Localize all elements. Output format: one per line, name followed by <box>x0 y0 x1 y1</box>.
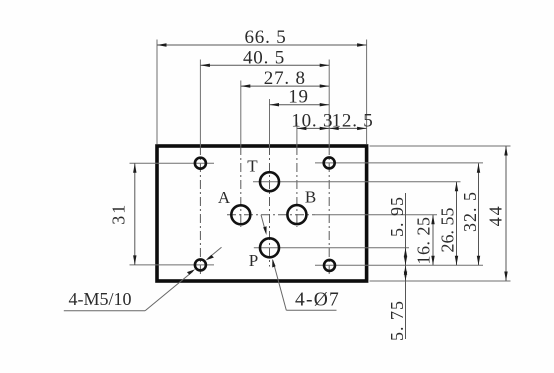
extension line A column (top) <box>240 81 242 147</box>
svg-text:44: 44 <box>486 204 506 226</box>
dimension 12.5 line <box>329 127 366 129</box>
extension line P row (right) <box>254 247 409 249</box>
svg-text:26. 55: 26. 55 <box>438 208 458 253</box>
svg-text:32. 5: 32. 5 <box>460 191 480 232</box>
port A <box>231 205 250 224</box>
dimension 5.75 arrows <box>404 265 407 275</box>
dimension 31 line <box>134 163 136 265</box>
centerline T-P vertical <box>269 146 271 267</box>
centerline B column <box>296 146 298 227</box>
extension line B column (top) <box>296 123 298 147</box>
mounting hole top-right <box>324 157 335 168</box>
centerline A column <box>240 146 242 227</box>
extension line right hole column (top) <box>328 60 330 147</box>
extension line T/P column (top) <box>269 99 271 146</box>
extension line 31 bottom <box>130 264 215 266</box>
centerline A-B horizontal <box>227 214 315 216</box>
dimension 10.3 line <box>297 127 329 129</box>
dimension 19 line <box>270 104 330 106</box>
extension line 31 top <box>130 162 215 164</box>
svg-text:T: T <box>247 156 258 175</box>
dimension 44 line <box>505 146 507 281</box>
svg-text:12. 5: 12. 5 <box>332 110 374 131</box>
extension line bottom edge (right) <box>370 280 511 282</box>
dimension 5.95 / 5.75 line <box>405 193 407 339</box>
svg-text:19: 19 <box>288 87 309 108</box>
mounting hole bottom-right <box>324 260 335 271</box>
dimension 40.5 line <box>200 64 329 66</box>
svg-text:5. 95: 5. 95 <box>387 196 407 237</box>
svg-text:66. 5: 66. 5 <box>245 27 287 48</box>
svg-text:4-M5/10: 4-M5/10 <box>69 289 132 309</box>
svg-text:5. 75: 5. 75 <box>387 300 407 341</box>
dimension 16.25 line <box>432 215 434 265</box>
svg-text:16. 25: 16. 25 <box>414 217 434 265</box>
port B <box>287 205 306 224</box>
centerline right holes vertical <box>328 146 330 277</box>
mounting hole top-left <box>195 158 206 169</box>
extension line right edge (top) <box>366 40 368 145</box>
svg-text:B: B <box>305 188 316 207</box>
extension line top edge (right) <box>370 145 511 147</box>
port P <box>260 238 279 257</box>
extension line A-B row (right) <box>315 214 437 216</box>
leader 4-diam7 upper segment <box>261 215 265 230</box>
svg-text:10. 3: 10. 3 <box>291 110 333 131</box>
extension line left edge (top) <box>156 40 158 145</box>
extension line top holes row (right) <box>315 162 483 164</box>
dimension 66.5 line <box>157 44 367 46</box>
dimension 26.55 line <box>456 182 458 266</box>
svg-text:A: A <box>218 188 231 207</box>
extension line T row (right) <box>253 181 461 183</box>
plate body outline <box>157 146 367 281</box>
svg-text:40. 5: 40. 5 <box>243 47 285 68</box>
svg-text:31: 31 <box>109 203 129 225</box>
dimension 27.8 line <box>241 85 329 87</box>
svg-text:4-Ø7: 4-Ø7 <box>295 290 340 311</box>
svg-text:P: P <box>249 251 258 270</box>
extension line left hole column (top) <box>199 60 201 147</box>
dimension 32.5 line <box>478 163 480 265</box>
mounting hole bottom-left <box>195 259 206 270</box>
centerline left holes vertical <box>199 146 201 277</box>
leader 4-M5/10 upper segment <box>208 247 222 258</box>
extension line bottom holes row (right) <box>315 264 483 266</box>
port T <box>260 172 279 191</box>
